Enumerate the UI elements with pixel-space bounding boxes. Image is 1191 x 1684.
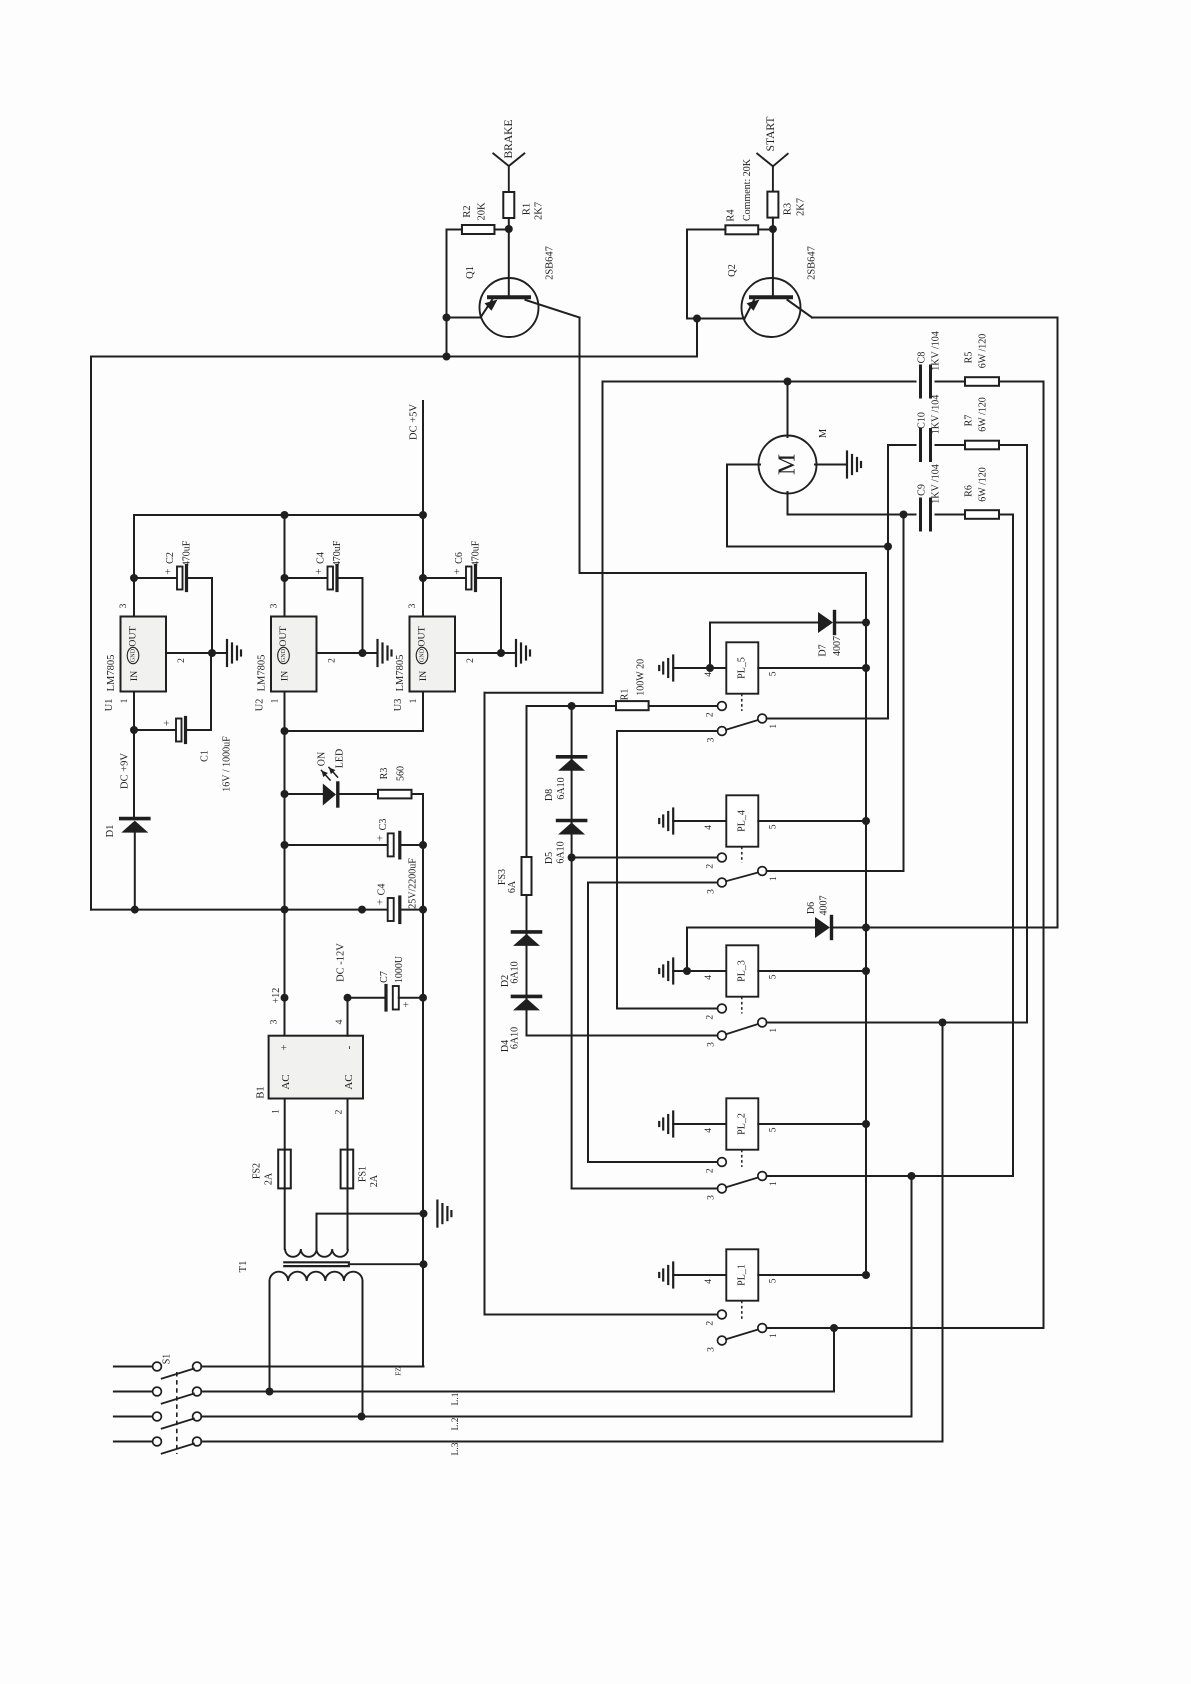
wire U3 pin1 (422, 692, 424, 732)
svg-text:DC -12V: DC -12V (336, 943, 347, 982)
relay PL_1 actuator (dotted) (741, 1301, 743, 1320)
svg-text:5: 5 (768, 1278, 778, 1283)
svg-text:FZ: FZ (394, 1367, 403, 1376)
svg-text:3: 3 (707, 1195, 717, 1200)
ground center tap (436, 1201, 438, 1227)
wire core/screen to ground rail (349, 1263, 424, 1265)
svg-text:1KV /104: 1KV /104 (931, 395, 942, 435)
node PL_3 coil left / D6 (683, 967, 691, 975)
svg-text:560: 560 (396, 766, 407, 781)
svg-text:3: 3 (270, 603, 280, 608)
wire motor right to ground (815, 464, 847, 466)
svg-text:S1: S1 (162, 1354, 173, 1365)
svg-text:PL_4: PL_4 (737, 810, 748, 832)
svg-text:2: 2 (706, 1168, 716, 1173)
node PL_1 coil on rail (862, 1271, 870, 1279)
wire PL_4 c3 down to PL_2 c2 (587, 883, 589, 1163)
capacitor C7 1000U (348, 997, 385, 999)
wire C8/R5 snubber row (603, 381, 916, 383)
node C4 right on ground rail (419, 906, 427, 914)
svg-text:PL_5: PL_5 (737, 657, 748, 679)
transformer T1 primary winding (270, 1272, 363, 1281)
wire Q2 collector down right side (1057, 318, 1059, 928)
wire R3 to Q2 base (772, 218, 774, 296)
svg-text:5: 5 (768, 974, 778, 979)
wire PL_5 coil right to rail (758, 667, 866, 669)
svg-text:D7: D7 (817, 644, 828, 656)
resistor R5 6W/120 (965, 377, 999, 386)
diode D8 6A10 (558, 755, 586, 759)
relay PL_4 contact 3 (718, 878, 727, 887)
svg-text:LM7805: LM7805 (106, 655, 117, 692)
relay PL_5 contact 3 (718, 727, 727, 736)
ground U2 (376, 640, 378, 666)
wire PL_1 coil right to rail (758, 1274, 866, 1276)
resistor R3 2K7 (767, 192, 778, 218)
ground motor (846, 452, 848, 478)
wire primary right leg (362, 1281, 364, 1417)
svg-text:5: 5 (768, 824, 778, 829)
wire PL_4 contact2 row (572, 857, 718, 859)
node C3 right on ground rail (419, 841, 427, 849)
relay PL_1 contact 2 (718, 1310, 727, 1319)
node U2 pin1 row (281, 727, 289, 735)
capacitor C4 25V/2200uF (388, 898, 394, 921)
svg-text:3: 3 (707, 737, 717, 742)
relay PL_2 contact 2 (718, 1158, 727, 1167)
svg-text:-: - (343, 1045, 355, 1049)
wire phase line 1 (to ground rail) (201, 1366, 423, 1368)
relay PL_3 contact 3 (718, 1031, 727, 1040)
svg-text:1KV /104: 1KV /104 (931, 464, 942, 504)
svg-text:3: 3 (408, 603, 418, 608)
node Q2 base junction (769, 225, 777, 233)
svg-text:C8: C8 (917, 352, 928, 364)
svg-text:T1: T1 (238, 1261, 249, 1273)
diode D2 6A10 (513, 930, 541, 934)
svg-text:4: 4 (704, 825, 714, 830)
voltage regulator U1 LM7805 (133, 515, 135, 617)
node L2 riser on PL_2 c1 (908, 1172, 916, 1180)
wire D1 to +12 rail (134, 833, 136, 910)
node D8 column on R1 row (568, 702, 576, 710)
diode D1 (121, 817, 149, 821)
switch S1 pole 4 (114, 1441, 153, 1443)
node D1 on +12 rail (131, 906, 139, 914)
svg-text:R1: R1 (619, 689, 630, 701)
svg-text:IN: IN (418, 671, 429, 681)
wire PL_3 contact2 row (617, 1008, 718, 1010)
node C7 right on ground rail (419, 994, 427, 1002)
svg-text:3: 3 (707, 1347, 717, 1352)
node Q1 base junction (505, 225, 513, 233)
wire C9/R6 snubber row (788, 514, 916, 516)
diode D6 4007 (687, 927, 815, 929)
wire +12V rail bottom (91, 909, 388, 911)
svg-text:1000U: 1000U (394, 955, 405, 983)
svg-text:OUT: OUT (128, 626, 139, 646)
resistor R1 2K7 (503, 192, 514, 218)
relay coil PL_1 (729, 1251, 757, 1298)
wire FS1 to secondary (347, 1189, 349, 1249)
wire U3 pin2 / GND (455, 652, 516, 654)
svg-text:100W 20: 100W 20 (636, 659, 647, 696)
node D6 on coil rail (862, 924, 870, 932)
svg-text:1: 1 (271, 698, 281, 703)
svg-text:D8: D8 (544, 789, 555, 801)
svg-text:2: 2 (706, 1015, 716, 1020)
svg-text:ON: ON (317, 752, 328, 766)
wire R7 down to PL_3 contact 1 (1026, 445, 1028, 1023)
ground relay PL_1 (672, 1263, 674, 1288)
wire PL_2 contact2 row (588, 1161, 718, 1163)
svg-text:2A: 2A (369, 1174, 380, 1187)
fuse FS3 6A (522, 857, 532, 895)
wire +12V column (U2 pin1 to bridge +) (284, 731, 286, 1036)
svg-text:3: 3 (119, 603, 129, 608)
wire R4 left to emitter (686, 230, 688, 319)
diode D4 6A10 (513, 995, 541, 999)
wire PL_5 contact3 row (617, 730, 718, 732)
node C9 row branch to PL_4 contact 1 (900, 511, 908, 519)
ground U1 (226, 640, 228, 666)
svg-text:R1: R1 (522, 203, 533, 215)
svg-text:2K7: 2K7 (534, 202, 545, 220)
wire +5V rail (134, 514, 423, 516)
capacitor C1 16V/1000uF (134, 729, 176, 731)
fuse FS1 2A (341, 1150, 354, 1189)
diode D5 6A10 (558, 819, 586, 823)
svg-text:1: 1 (769, 1333, 779, 1338)
svg-text:2: 2 (177, 658, 187, 663)
relay PL_5 actuator (dotted) (741, 694, 743, 711)
svg-text:6A10: 6A10 (510, 1027, 521, 1049)
wire snubber-C8 chain row (485, 692, 603, 694)
svg-text:25V/2200uF: 25V/2200uF (408, 858, 419, 909)
svg-text:LM7805: LM7805 (257, 655, 268, 692)
fuse FS2 2A (278, 1150, 291, 1189)
svg-text:D1: D1 (105, 825, 116, 838)
wire chain down to PL_1 contact2 (484, 693, 486, 1315)
relay PL_5 contact 1 (758, 714, 767, 723)
svg-text:3: 3 (707, 1042, 717, 1047)
wire emitter node down to bus (696, 319, 698, 357)
wire +12V bus (emitter rail) (91, 356, 697, 358)
ground relay PL_4 (672, 809, 674, 834)
svg-text:2: 2 (706, 1321, 716, 1326)
svg-text:+: + (313, 568, 325, 574)
capacitor C2 470uF (130, 574, 138, 582)
svg-text:C4: C4 (316, 552, 327, 564)
resistor R6 6W/120 (965, 510, 999, 519)
svg-text:PL_1: PL_1 (737, 1264, 748, 1286)
svg-text:4: 4 (704, 1279, 714, 1284)
capacitor C8 1KV/104 (919, 366, 922, 397)
wire PL_4 contact3 row (588, 882, 718, 884)
svg-text:+: + (375, 835, 387, 841)
svg-text:3: 3 (270, 1019, 280, 1024)
wire PL_3 coil left (673, 970, 726, 972)
svg-text:6W /120: 6W /120 (978, 467, 989, 502)
svg-text:LED: LED (335, 749, 346, 768)
svg-text:4: 4 (704, 975, 714, 980)
switch S1 pole 2 (114, 1391, 153, 1393)
wire PL_4 coil left (673, 820, 726, 822)
diode D7 4007 (710, 622, 818, 624)
ground relay PL_5 (672, 656, 674, 681)
svg-text:R2: R2 (462, 205, 473, 217)
svg-text:2: 2 (706, 712, 716, 717)
svg-text:AC: AC (343, 1074, 355, 1089)
node bus / Q1 emitter branch (443, 353, 451, 361)
svg-text:+: + (375, 899, 387, 905)
svg-text:R5: R5 (964, 352, 975, 364)
svg-text:2K7: 2K7 (796, 198, 807, 216)
svg-text:D5: D5 (544, 852, 555, 864)
svg-text:C4: C4 (377, 884, 388, 896)
svg-text:3: 3 (707, 889, 717, 894)
wire PL_2 coil right to rail (758, 1123, 866, 1125)
wire PL_1 contact1 row (767, 1327, 1044, 1329)
relay PL_3 contact 1 (758, 1018, 767, 1027)
svg-text:Q2: Q2 (727, 264, 738, 277)
svg-text:2: 2 (335, 1109, 345, 1114)
wire D7 row left (709, 623, 711, 669)
node L3 riser on PL_3 c1 (939, 1019, 947, 1027)
node motor left on PL_5 contact column (884, 543, 892, 551)
capacitor C6 470uF (419, 574, 427, 582)
wire Q1 collector down (579, 318, 581, 574)
LED ON indicator (285, 793, 323, 795)
wire PL_1 coil left (673, 1274, 726, 1276)
svg-text:4: 4 (704, 672, 714, 677)
svg-text:6A10: 6A10 (556, 841, 567, 863)
node Q1 emitter wire (443, 314, 451, 322)
svg-text:C10: C10 (917, 412, 928, 429)
resistor R7 6W/120 (965, 441, 999, 450)
svg-text:2: 2 (466, 658, 476, 663)
relay coil PL_3 (729, 947, 757, 994)
svg-text:1: 1 (769, 1028, 779, 1033)
svg-text:+: + (161, 720, 173, 726)
svg-text:+12: +12 (271, 988, 282, 1004)
svg-text:R6: R6 (964, 485, 975, 497)
transformer T1 core (284, 1261, 349, 1263)
relay PL_2 actuator (dotted) (741, 1150, 743, 1167)
wire U1 pin2 / GND (166, 652, 227, 654)
svg-text:R3: R3 (783, 203, 794, 215)
svg-text:+: + (279, 1044, 291, 1050)
svg-text:OUT: OUT (278, 626, 289, 646)
wire B1 pin1 (284, 1099, 286, 1150)
wire L2 riser (911, 1176, 913, 1417)
svg-text:6W /120: 6W /120 (978, 397, 989, 432)
capacitor C10 1KV/104 (919, 430, 922, 461)
svg-text:4: 4 (704, 1128, 714, 1133)
wire motor left (727, 464, 760, 466)
svg-text:1: 1 (769, 724, 779, 729)
wire PL_2 contact3 row (to D5 column) (572, 1188, 718, 1190)
wire C8 row left chain down (602, 382, 604, 693)
wire emitter node to bus (446, 318, 448, 357)
svg-text:M: M (775, 454, 801, 475)
svg-text:5: 5 (768, 1127, 778, 1132)
ground relay PL_2 (672, 1112, 674, 1137)
relay PL_2 contact 1 (758, 1172, 767, 1181)
transformer T1 secondary winding (285, 1249, 348, 1257)
wire relay coil rail (collector feed) (865, 573, 867, 1275)
wire D8/D5 column (571, 706, 573, 1189)
voltage regulator U2 LM7805 (284, 515, 286, 617)
svg-text:PL_3: PL_3 (737, 960, 748, 982)
voltage regulator U3 LM7805 (422, 515, 424, 617)
node screen on ground rail (420, 1260, 428, 1268)
svg-text:2: 2 (328, 658, 338, 663)
svg-text:C2: C2 (165, 552, 176, 564)
svg-text:GND: GND (130, 648, 137, 662)
resistor R1 100W 20 (616, 701, 649, 710)
wire FS3/D2/D4 column (526, 706, 528, 1036)
relay PL_4 blade (726, 873, 758, 882)
svg-text:R4: R4 (726, 209, 737, 222)
svg-text:470uF: 470uF (332, 540, 343, 566)
svg-text:1KV /104: 1KV /104 (931, 331, 942, 371)
relay PL_4 actuator (dotted) (741, 847, 743, 863)
svg-text:6A10: 6A10 (556, 777, 567, 799)
wire Q2 collector row (812, 317, 1058, 319)
svg-text:U2: U2 (255, 699, 266, 712)
svg-text:B1: B1 (256, 1086, 267, 1098)
svg-text:1: 1 (769, 1181, 779, 1186)
relay PL_2 contact 3 (718, 1184, 727, 1193)
svg-text:OUT: OUT (417, 626, 428, 646)
svg-text:L.1: L.1 (451, 1392, 461, 1405)
node on rail (358, 906, 366, 914)
node LED branch (281, 790, 289, 798)
wire phase line L.3 (201, 1441, 942, 1443)
svg-text:2SB647: 2SB647 (545, 246, 556, 280)
node center tap on ground rail (420, 1210, 428, 1218)
svg-text:1: 1 (120, 698, 130, 703)
node L1 riser on PL_1 c1 (830, 1324, 838, 1332)
svg-text:+: + (401, 1001, 413, 1007)
svg-text:LM7805: LM7805 (395, 655, 406, 692)
svg-text:DC +9V: DC +9V (120, 753, 131, 789)
bridge rectifier B1 (269, 1036, 363, 1099)
motor M (759, 436, 817, 494)
input terminal BRAKE (493, 154, 509, 167)
svg-text:Comment: 20K: Comment: 20K (742, 158, 753, 221)
svg-text:R7: R7 (964, 415, 975, 427)
svg-text:C9: C9 (917, 484, 928, 496)
svg-text:M: M (818, 428, 829, 438)
relay PL_5 contact 2 (718, 702, 727, 711)
node PL_4 coil on rail (862, 817, 870, 825)
wire DC +5V stub (422, 401, 424, 515)
transistor Q1 2SB647 (PNP) (480, 278, 539, 337)
wire +12V bus (left border vertical) (90, 357, 92, 910)
svg-text:6W /120: 6W /120 (978, 334, 989, 369)
wire PL_3 contact1 row (767, 1022, 1027, 1024)
svg-text:C7: C7 (379, 971, 390, 983)
node PL_5 coil on rail (862, 664, 870, 672)
wire R6 down to PL_2 contact 1 (1012, 515, 1014, 1177)
svg-text:2: 2 (706, 864, 716, 869)
input terminal START (757, 154, 773, 167)
node PL_2 coil on rail (862, 1120, 870, 1128)
svg-text:Q1: Q1 (465, 266, 476, 279)
wire PL_3 contact3 row (to D4) (527, 1035, 718, 1037)
svg-text:470uF: 470uF (182, 540, 193, 566)
node D5 to PL_4 contact 2 (568, 854, 576, 862)
svg-text:DC +5V: DC +5V (409, 404, 420, 440)
switch S1 pole 1 (114, 1366, 153, 1368)
svg-text:1: 1 (272, 1109, 282, 1114)
wire PL_5 c3 down to PL_3 c2 (616, 731, 618, 1009)
wire L1 riser (833, 1328, 835, 1392)
wire phase line L.2 (201, 1416, 911, 1418)
relay PL_3 contact 2 (718, 1004, 727, 1013)
wire DC +9V (133, 730, 135, 819)
switch S1 linkage (dashed) (176, 1372, 178, 1454)
relay PL_1 contact 1 (758, 1324, 767, 1333)
relay PL_4 contact 1 (758, 867, 767, 876)
svg-text:4007: 4007 (832, 636, 843, 656)
relay PL_1 blade (726, 1330, 758, 1340)
svg-text:IN: IN (280, 671, 291, 681)
svg-text:C1: C1 (200, 750, 211, 762)
wire C9 node down to PL_4 contact 1 (903, 515, 905, 872)
svg-text:FS2: FS2 (252, 1163, 263, 1179)
wire motor bottom (787, 492, 789, 515)
svg-text:GND: GND (280, 648, 287, 662)
svg-text:2A: 2A (264, 1172, 275, 1185)
svg-text:4007: 4007 (818, 896, 829, 916)
svg-text:D6: D6 (806, 902, 817, 914)
svg-text:U3: U3 (393, 699, 404, 712)
svg-text:L.2: L.2 (451, 1417, 461, 1430)
relay PL_4 contact 2 (718, 853, 727, 862)
svg-text:C6: C6 (454, 552, 465, 564)
relay PL_3 blade (726, 1024, 758, 1034)
capacitor C3 (285, 844, 388, 846)
svg-text:+: + (452, 568, 464, 574)
wire B1 pin2 (347, 1099, 349, 1150)
node PL_3 coil on rail (862, 967, 870, 975)
capacitor C4 470uF (281, 574, 289, 582)
capacitor C9 1KV/104 (919, 499, 922, 530)
node motor top on C8 row (784, 378, 792, 386)
svg-text:1: 1 (769, 876, 779, 881)
svg-text:5: 5 (768, 671, 778, 676)
wire FS2 to secondary (284, 1188, 286, 1249)
svg-text:+: + (163, 568, 175, 574)
wire motor top (787, 382, 789, 438)
svg-text:4: 4 (335, 1019, 345, 1024)
node primary left on L1 line (266, 1388, 274, 1396)
resistor R4 20K (758, 229, 773, 231)
svg-text:R3: R3 (379, 768, 390, 780)
svg-text:6A10: 6A10 (510, 961, 521, 983)
wire D6 row left (686, 928, 688, 972)
wire PL_4 coil right to rail (758, 820, 866, 822)
svg-text:1: 1 (409, 698, 419, 703)
svg-text:AC: AC (280, 1074, 292, 1089)
svg-text:BRAKE: BRAKE (503, 120, 515, 159)
wire B1 pin4 (-) to C7 (347, 998, 349, 1036)
wire PL_1 contact2 row (485, 1314, 718, 1316)
node U2 column on rail (281, 906, 289, 914)
